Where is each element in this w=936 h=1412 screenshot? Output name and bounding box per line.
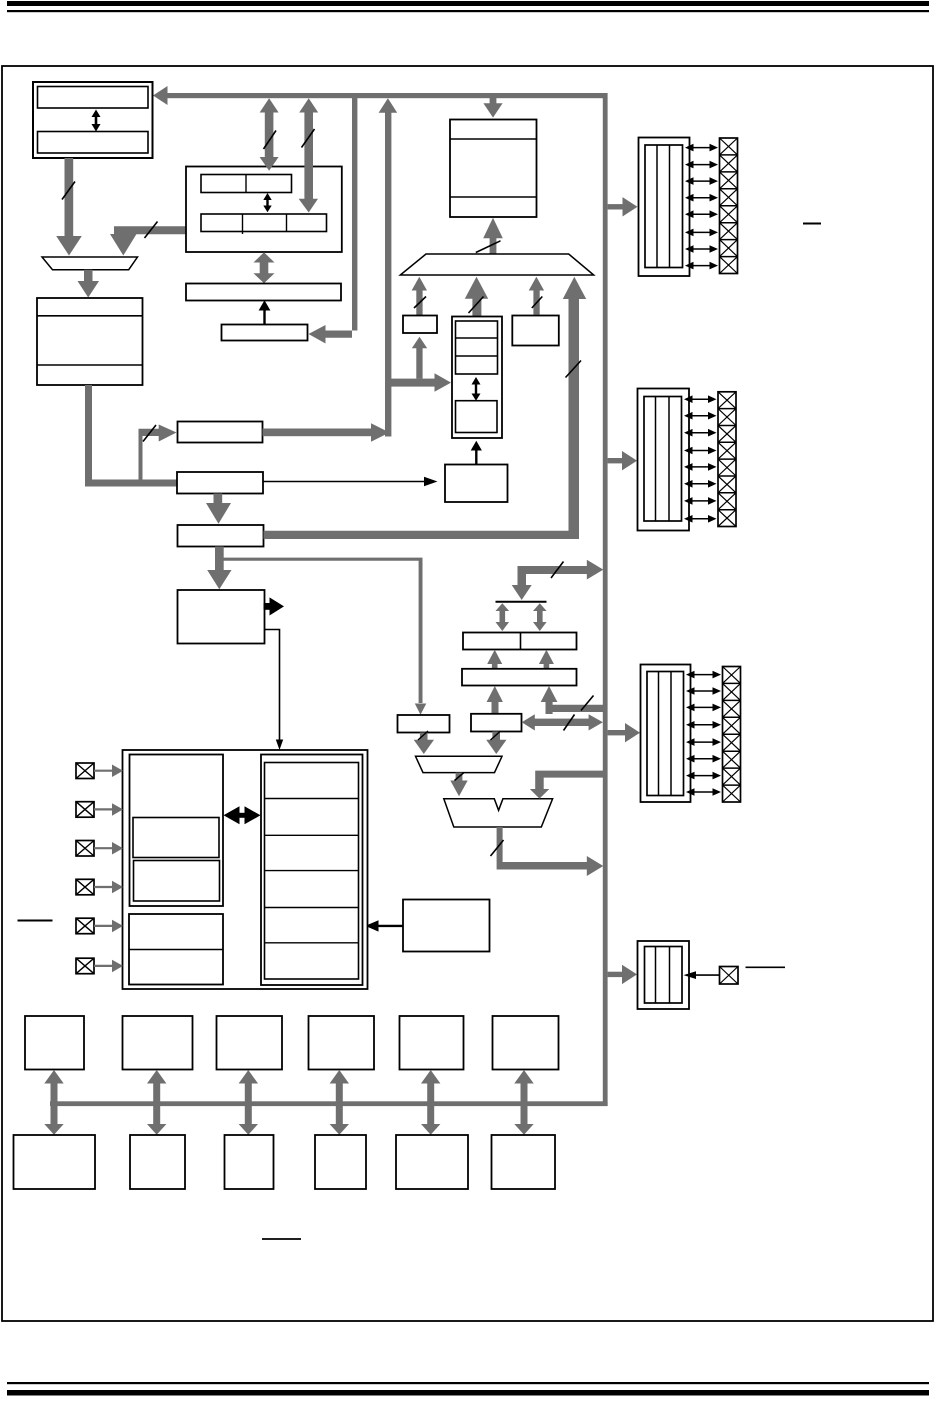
peripheral box top 4 [309,1016,375,1070]
bottom rule thick [7,1390,929,1396]
arrowhead branch into stack column box [435,373,452,392]
port E: pin to port black arrow [684,971,720,979]
bottom rule thin [7,1382,929,1384]
box: oscillator tall box [130,755,224,907]
box: timing multirow outer [261,755,363,986]
black double arrow osc to multirow [224,806,261,824]
line: upper register divider [245,175,247,193]
slash on branch [143,425,156,442]
bus wire: right main vertical bus [603,93,608,1106]
peripheral box bottom 4 [315,1135,366,1189]
box: program bus [186,284,341,301]
arrowhead into RAM addr register [159,425,177,442]
port C: pin arrow 1 [686,671,721,679]
slash on arrow1 [264,131,277,150]
slash on arrow2 [302,129,315,148]
port A: pin arrow 7 [685,245,718,253]
slash on arrow2 mux [469,297,484,314]
port E: outer box [638,941,690,1009]
pin X2 arrow [94,803,123,816]
wire: elbow from instruction group to left mux [114,226,186,234]
pin X4 [76,879,94,895]
line: stack divider lower [450,196,537,198]
port A: pin arrow 5 [685,210,718,218]
line: lower left divider [129,949,223,951]
box: status reg [445,465,508,503]
peripheral box top 6 [493,1016,559,1070]
line: lower register divider a [242,214,244,234]
black double arrow in group [263,193,271,212]
wire: thin branch up to RAM addr register [139,429,160,480]
peripheral box bottom 5 [396,1135,468,1189]
box: oscillator sub box 2 [134,861,220,902]
box: instruction group outer [186,167,342,253]
black arrow status up into stack column [471,441,482,465]
arrow row2 to row1 left [487,650,502,669]
peripheral bus double arrow 6 [514,1070,533,1135]
port A: pin arrow 3 [685,177,718,185]
line: row1 divider [520,633,522,650]
box: timing multirow inner [265,763,359,980]
box: stack column cells [456,321,498,374]
box: instruction decode and control [178,590,265,644]
arrow left mux to RAM [78,270,100,298]
arrowhead into wmux [530,789,550,799]
port C: pin arrow 8 [686,788,721,796]
port C: latch divider 1 [658,672,660,796]
arrowhead into instruction reg [309,325,326,344]
port A: pin arrow 8 [685,262,718,270]
port B: pin column [718,392,736,527]
black double arrow in stack column [472,377,481,401]
line: multirow divider 4 [265,907,359,909]
arrow3 small box up into addr mux [529,277,544,315]
port B: pin arrow 1 [684,395,717,403]
arrow boxB down to alu [486,732,506,755]
pin X5 arrow [94,920,123,933]
arrowhead black into big io box top [276,740,283,751]
wire: bus2 branch right to stack column [385,379,436,387]
bus wire: bottom peripheral bus [50,1101,608,1106]
arrow boxA down to alu [414,733,434,755]
slash on elbow bar [551,562,564,579]
alu trapezoid [416,756,503,772]
line: stack divider upper [450,138,537,140]
slash on bus elbow row2 [581,696,594,711]
black arrow right of decode box [264,597,285,615]
arrow: direct addr reg down to decode [207,547,231,590]
box: direct addr register [178,525,264,547]
wire: elbow node bar to main bus [518,566,588,586]
port E: inner latch box [645,947,683,1004]
port C: pin arrow 4 [686,721,721,729]
box: RAM file registers [37,298,143,385]
port A: outer box [639,138,690,277]
pin X3 arrow [94,842,123,855]
arrow elbow up into row2 right [541,686,558,707]
box: flash program memory outer [33,82,153,158]
arrow alu to wmux [450,773,467,797]
peripheral bus double arrow 5 [421,1070,440,1135]
arrow2 stack column up into addr mux [465,277,488,317]
gray double arrow boxB to main bus [522,714,603,730]
line: cell divider 2 [456,355,498,357]
wire: wmux output elbow to bus [497,827,588,870]
box: program memory upper cell [38,87,149,109]
port E: latch divider 2 [669,947,671,1004]
port C: inner latch box [647,672,684,796]
box: timing generation [403,900,490,952]
slash on boxA alu arrow [418,731,428,740]
arrow row2 to row1 right [539,650,554,669]
box: stack column outer [452,317,502,439]
port A: pin column [720,138,738,274]
box: lower left two-row box [129,914,223,985]
box: row1 pclath pair [463,633,577,650]
arrowhead wmux output into bus [587,856,604,876]
port B: pin arrow 5 [684,463,717,471]
box: A multiplier-like [398,715,450,733]
wire: bus1 vertical from top bus [325,98,357,338]
port E: latch divider 1 [655,947,657,1004]
peripheral box top 5 [400,1016,464,1070]
dash label port E [746,966,786,968]
peripheral box bottom 2 [130,1135,185,1189]
dash label bottom [262,1238,301,1240]
wire: RAM bottom elbow bus [85,385,178,487]
port B: bus arrow [608,451,637,470]
peripheral box top 3 [217,1016,283,1070]
box: RAM addr register [178,422,263,443]
black double arrow between memory cells [92,110,101,132]
port B: inner latch box [644,397,682,522]
port C: latch divider 2 [670,672,672,796]
port B: latch divider 2 [668,397,670,522]
wmux trapezoid with notch [444,799,553,827]
wire: bus elbow up to row2 right [546,705,604,714]
pin X4 arrow [94,881,123,894]
box: group lower register [201,214,327,232]
peripheral box bottom 6 [492,1135,556,1189]
wire: program memory down bus [65,158,74,238]
arrowhead black into status box [424,477,438,487]
slash on boxB bus arrow [564,715,575,731]
port C: pin arrow 7 [686,772,721,780]
arrow: box2 down to direct addr register [206,494,231,524]
line: RAM lower divider [37,364,143,366]
port A: pin arrow 1 [685,144,718,152]
box: FSR reg [403,316,437,334]
peripheral bus double arrow 2 [147,1070,166,1135]
wire: RAM addr to right bus [263,429,372,437]
gray double arrow1 top bus to group [260,98,279,170]
peripheral box top 1 [25,1016,84,1070]
box: row2 pc pair [462,669,577,686]
line: cell divider 1 [456,337,498,339]
port C: bus arrow [608,723,640,742]
line: multirow divider 3 [265,870,359,872]
box: program memory lower cell [38,132,149,154]
gray double arrow group to program bus box [254,252,275,283]
port C: outer box [641,665,691,803]
wire: decode to timing block thin line [265,630,280,742]
left mux trapezoid [42,257,138,270]
box: B small right [471,714,522,732]
slash on stack-mux shaft [476,241,501,253]
arrow boxB up to row2 [487,686,503,714]
port B: latch divider 1 [655,397,657,522]
wire: direct addr vertical riser [569,298,580,532]
arrowhead bus2 top [379,98,398,113]
wire: branch riser to FSR box [416,347,422,379]
line: multirow divider 1 [265,798,359,800]
slash on elbow [145,222,158,239]
pin X6 [76,958,94,974]
pin X3 [76,841,94,857]
port A: pin arrow 4 [685,194,718,202]
box: big io outer [123,750,368,989]
wire: thin gray line decode to boxA [224,558,423,703]
slash on direct addr riser [566,361,582,378]
pin X6 arrow [94,960,123,973]
arrowhead into boxA [415,704,427,715]
box: group upper register [201,175,292,193]
line: multirow divider 2 [265,834,359,836]
black arrow timing to big io box [365,920,403,931]
port B: pin arrow 2 [684,412,717,420]
peripheral bus double arrow 4 [330,1070,349,1135]
port E: bus arrow [608,965,637,984]
pin X1 arrow [94,765,123,778]
line: multirow divider 5 [265,942,359,944]
arrow: top bus down into stack [483,98,502,118]
port C: pin arrow 3 [686,704,721,712]
wire: direct addr thick path to addr mux [264,531,580,539]
slash on boxB alu arrow [491,731,501,740]
box: oscillator sub box 1 [133,818,219,858]
arrowhead elbow down into left mux [110,234,137,256]
port B: outer box [638,389,690,531]
arrowhead direct addr into addr mux [563,277,586,299]
pin X5 [76,918,94,934]
slash on program memory bus [62,182,75,200]
addr mux trapezoid [400,254,593,275]
peripheral bus double arrow 1 [44,1070,63,1135]
port A: latch divider 2 [669,145,671,268]
port B: pin arrow 7 [684,497,717,505]
arrowhead up into FSR box [412,337,427,348]
port A: latch divider 1 [656,145,658,268]
port C: pin arrow 5 [686,738,721,746]
port B: pin arrow 6 [684,480,717,488]
port A: pin arrow 6 [685,229,718,237]
slash on alu-wmux arrow [455,773,465,781]
peripheral box bottom 3 [225,1135,274,1189]
slash on wmux output [491,840,504,856]
line: RAM upper divider [37,315,143,317]
top rule thick [7,1,929,6]
port A: inner latch box [645,145,683,268]
box: addr pointer register 2 [177,472,263,494]
peripheral bus double arrow 3 [239,1070,258,1135]
box: stack top middle [450,120,537,218]
gray arrow2 top bus down into group [299,98,319,212]
dash label right top [803,223,821,225]
top rule thin [7,10,929,12]
box: stack column bottom cell [456,401,498,433]
port B: pin arrow 8 [684,515,717,523]
wire: bus2 vertical with up arrowhead [385,111,391,437]
arrowhead into program memory [153,86,168,105]
box: status-like small box right [512,316,559,346]
port C: pin arrow 2 [686,687,721,695]
gray double arrow node bar to row1 left [496,603,510,631]
arrowhead elbow into main bus [587,560,604,580]
port C: pin column [723,667,741,803]
pin X2 [76,802,94,818]
wire: thin black line to status box [263,481,426,483]
port A: bus arrow [608,197,638,216]
line: lower register divider b [286,214,288,232]
port E: pin column [720,967,739,985]
box: instruction reg [222,325,308,341]
node bar black line [496,601,547,603]
slash on arrow3 mux [532,297,543,309]
port C: pin arrow 6 [686,755,721,763]
wire: bus elbow into wmux top right [535,771,603,790]
peripheral box bottom 1 [14,1135,96,1189]
arrowhead into left mux [56,236,82,256]
arrow1 FSR up into addr mux [412,277,427,316]
arrowhead into vertical bus2 [371,423,390,441]
arrow: addr mux up into stack [483,218,503,255]
black arrow instruction reg to program bus [259,300,271,324]
arrowhead elbow down to node bar [512,585,532,600]
port B: pin arrow 4 [684,447,717,455]
port A: pin arrow 2 [685,161,718,169]
bus wire: top program bus [160,93,608,98]
gray double arrow node bar to row1 right [533,603,547,631]
port B: pin arrow 3 [684,429,717,437]
pin X1 [76,763,94,779]
peripheral box top 2 [123,1016,193,1070]
slash on arrow1 mux [414,297,426,309]
dash label left [18,920,53,922]
